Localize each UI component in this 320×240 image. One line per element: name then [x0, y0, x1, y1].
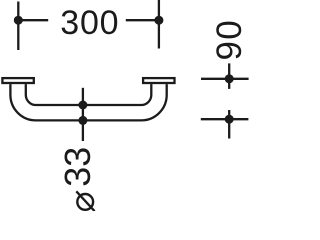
dim300 right node dot [154, 16, 163, 25]
dim300 right tick vertical [158, 0, 160, 49]
svg-text:90: 90 [210, 19, 249, 61]
diameter symbol slash [76, 191, 94, 211]
dim90 bottom node dot [225, 115, 234, 124]
bar top edge node dot [78, 101, 87, 110]
right wall flange [143, 78, 174, 83]
bar bottom edge node dot [78, 116, 87, 125]
dim90 top leader horizontal [201, 78, 249, 80]
dim90 bottom tick vertical [228, 110, 230, 139]
dim300 left leader horizontal [18, 19, 48, 21]
dim300 right leader horizontal [126, 19, 159, 21]
grab bar inner edge [26, 84, 152, 105]
diameter symbol circle [77, 194, 93, 210]
dim90 bottom leader horizontal [201, 118, 249, 120]
dim90 top node dot [225, 74, 234, 83]
dim90 top tick vertical [228, 63, 230, 89]
dim300 left node dot [14, 16, 23, 25]
svg-text:33: 33 [57, 147, 98, 187]
svg-text:300: 300 [60, 4, 119, 42]
grab bar outline [10, 84, 166, 120]
dim300 left tick vertical [17, 2, 19, 51]
left wall flange [2, 78, 33, 83]
bar center line [82, 88, 84, 141]
